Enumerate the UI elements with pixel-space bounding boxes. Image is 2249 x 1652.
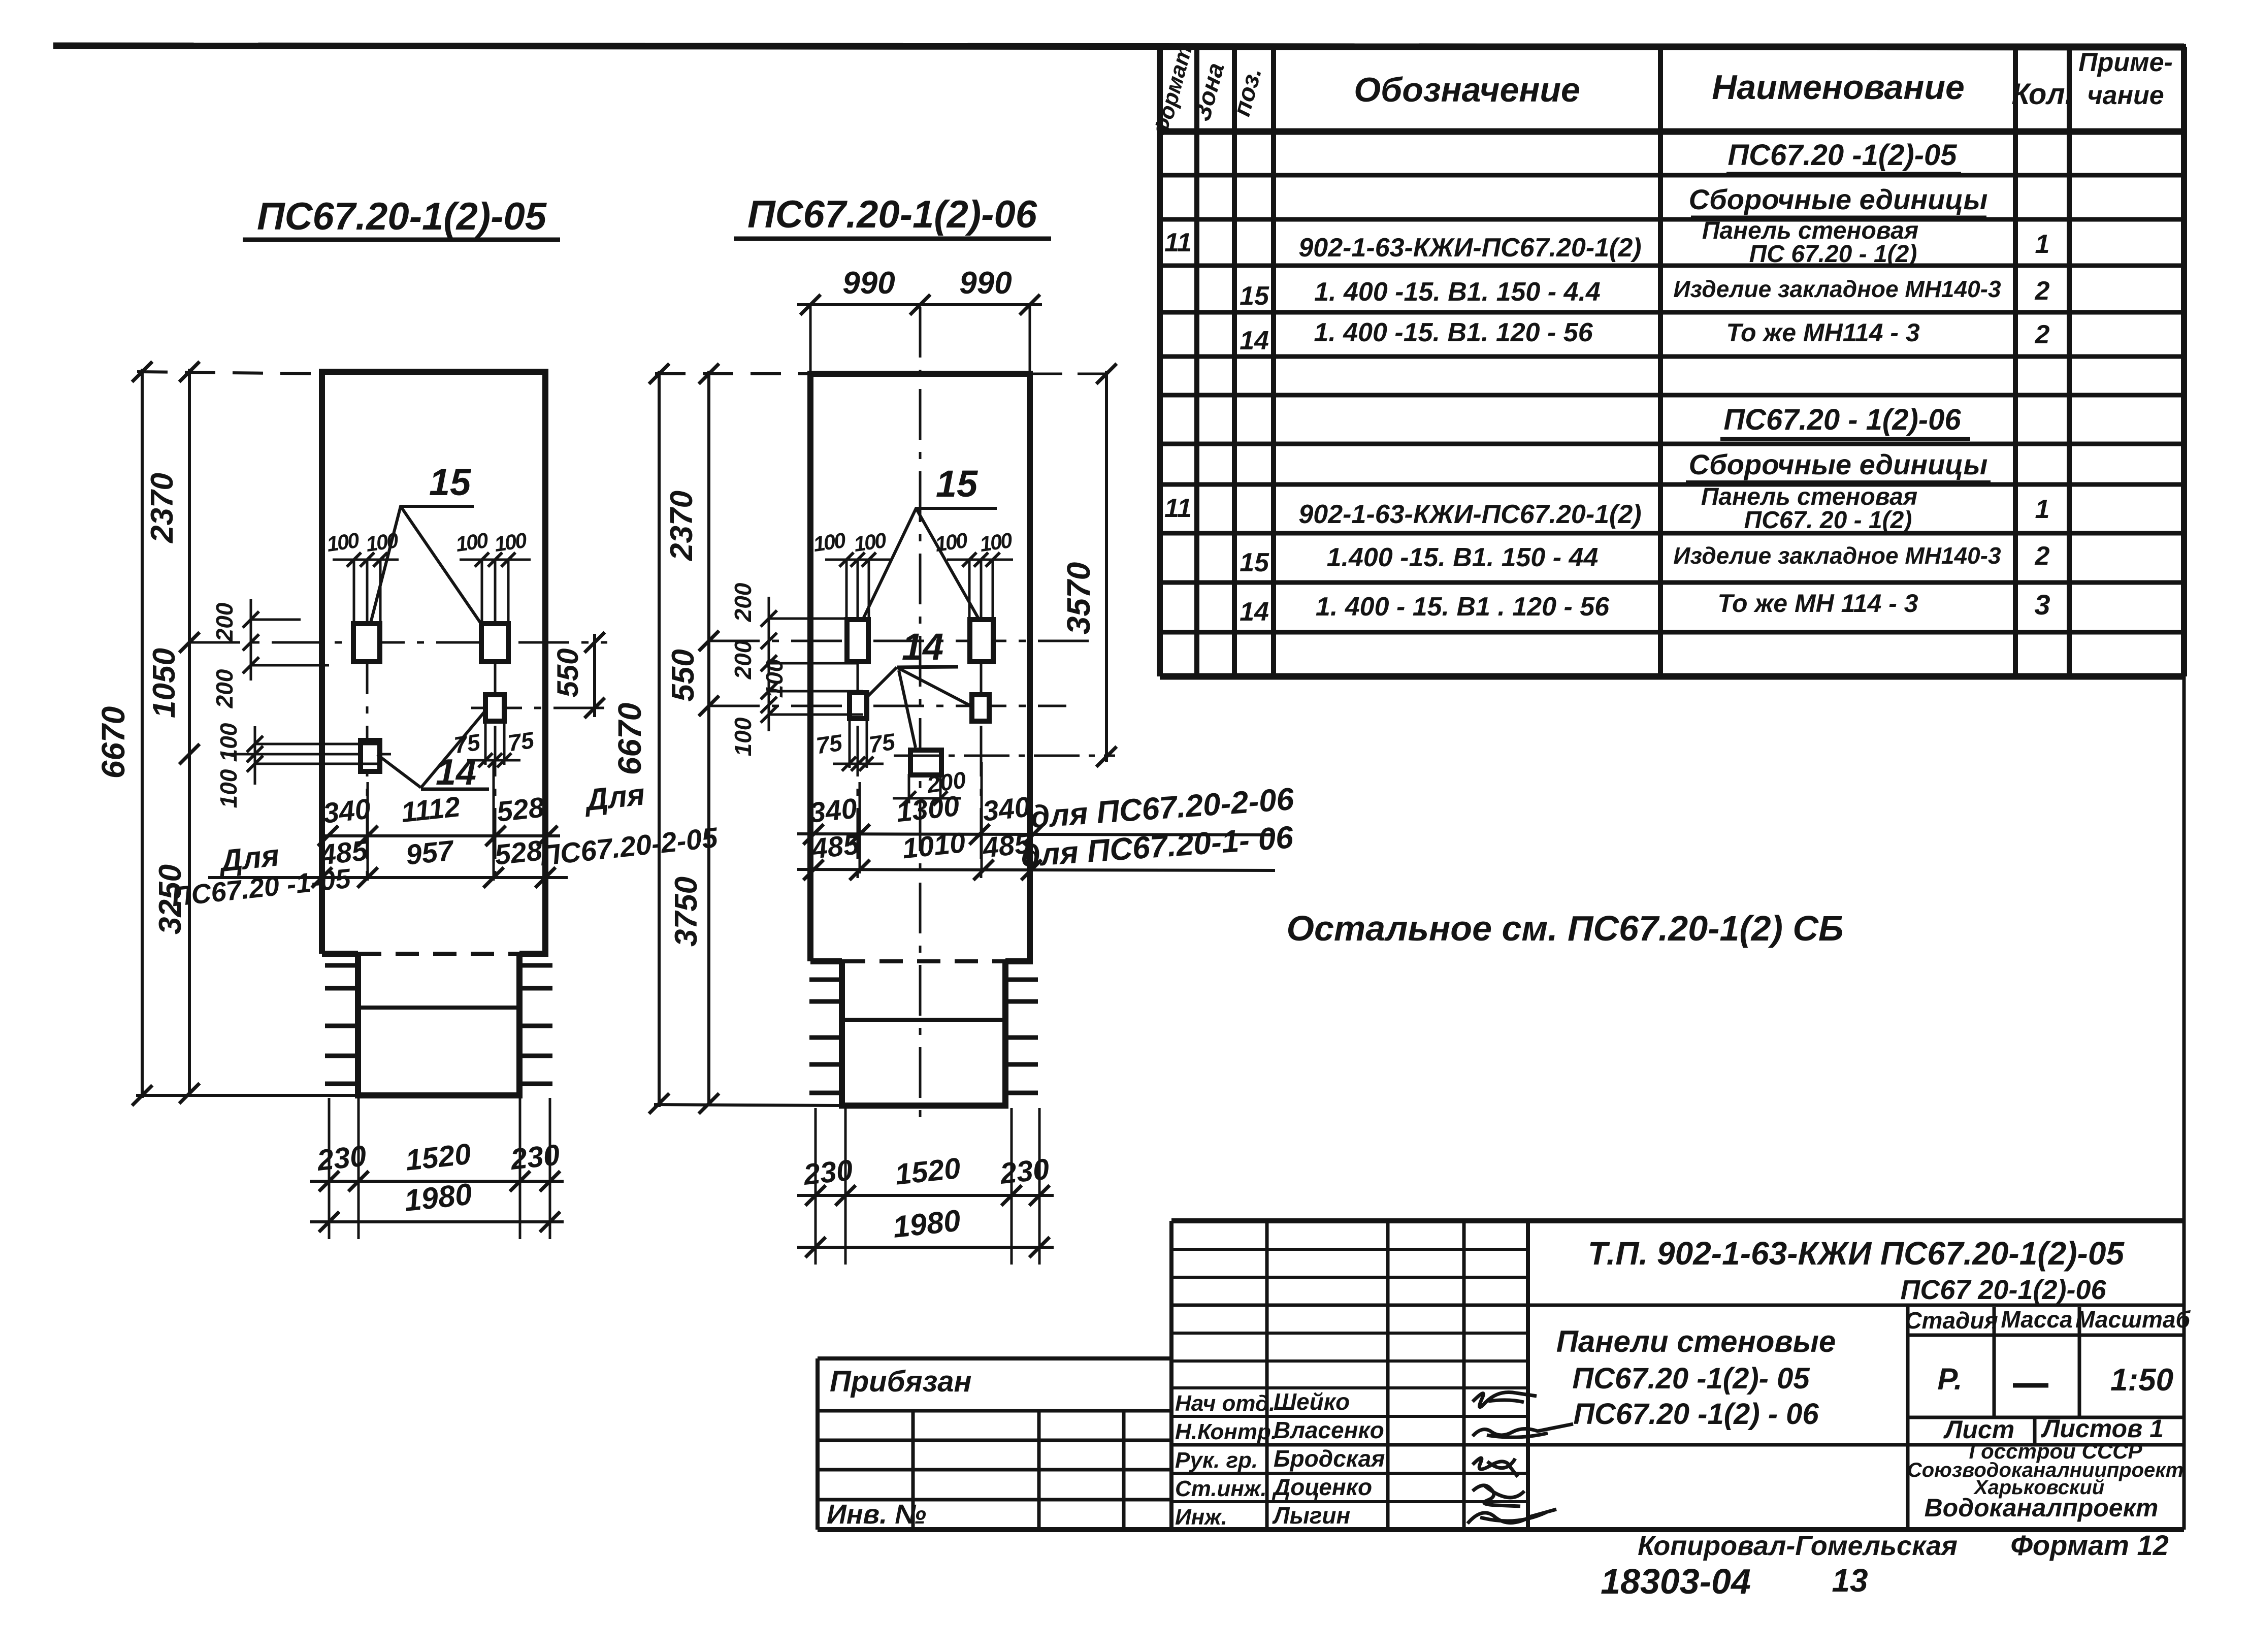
svg-text:200: 200 <box>211 602 238 642</box>
svg-text:13: 13 <box>1832 1562 1868 1599</box>
svg-text:Стадия: Стадия <box>1905 1307 1998 1334</box>
svg-text:230: 230 <box>508 1138 561 1176</box>
svg-text:Копировал-Гомельская: Копировал-Гомельская <box>1638 1531 1958 1561</box>
svg-text:1: 1 <box>2035 230 2050 259</box>
svg-text:ПС 67.20 - 1(2): ПС 67.20 - 1(2) <box>1749 241 1917 268</box>
panel 1 hatch marks right <box>520 963 552 968</box>
d2 embed plate 14 lower-left <box>850 693 867 719</box>
svg-text:550: 550 <box>666 649 701 701</box>
panel 1 joint line <box>358 1006 519 1010</box>
svg-text:75: 75 <box>814 729 844 759</box>
svg-text:990: 990 <box>842 266 895 301</box>
svg-text:528: 528 <box>493 834 544 871</box>
svg-text:957: 957 <box>404 834 456 871</box>
d2 embed plate 15 top-right <box>970 620 993 662</box>
d1 embed column centerline left <box>366 561 369 880</box>
d1 dim row 230/1520/230 <box>310 1180 564 1183</box>
svg-text:ПС67.20-1(2)-05: ПС67.20-1(2)-05 <box>257 195 547 238</box>
d1 bottom extension line <box>136 1094 358 1097</box>
d2 center vertical axis <box>919 307 922 1117</box>
svg-text:15: 15 <box>936 463 979 505</box>
svg-text:100: 100 <box>978 528 1014 556</box>
svg-text:1980: 1980 <box>891 1203 962 1244</box>
svg-text:100: 100 <box>454 528 490 556</box>
d1 horizontal centerline upper embeds <box>189 641 607 644</box>
svg-text:Рук. гр.: Рук. гр. <box>1175 1448 1258 1473</box>
svg-text:ПС67. 20 - 1(2): ПС67. 20 - 1(2) <box>1744 507 1912 534</box>
svg-text:Остальное см. ПС67.20-1(2) С: Остальное см. ПС67.20-1(2) СБ <box>1287 909 1844 948</box>
d2 embed column centerline right <box>980 561 983 884</box>
svg-text:200: 200 <box>730 582 756 622</box>
svg-text:902-1-63-КЖИ-ПС67.20-1(2): 902-1-63-КЖИ-ПС67.20-1(2) <box>1298 233 1641 263</box>
svg-text:550: 550 <box>551 649 584 698</box>
svg-text:1980: 1980 <box>403 1177 474 1218</box>
svg-text:230: 230 <box>315 1139 368 1177</box>
panel 2 hidden bottom edge (dashed) <box>842 959 1005 963</box>
svg-text:Обозначение: Обозначение <box>1354 71 1580 109</box>
d2 top extension line <box>655 372 810 375</box>
svg-text:1520: 1520 <box>404 1138 472 1177</box>
svg-text:Для: Для <box>582 777 646 817</box>
svg-text:100: 100 <box>215 769 242 808</box>
d1 dim row 340/1112/528 <box>322 834 560 837</box>
d1 bottom extension verticals <box>328 1098 331 1239</box>
svg-text:То же МН 114 - 3: То же МН 114 - 3 <box>1717 589 1918 618</box>
svg-text:Инж.: Инж. <box>1175 1505 1227 1530</box>
svg-text:1520: 1520 <box>893 1152 962 1191</box>
svg-text:14: 14 <box>1240 597 1269 627</box>
svg-text:Изделие закладное МН140-3: Изделие закладное МН140-3 <box>1673 276 2001 302</box>
title block outer and grid <box>1171 1218 2184 1223</box>
d1 top extension line <box>137 372 322 374</box>
svg-text:1. 400 -15. В1. 150 - 4.4: 1. 400 -15. В1. 150 - 4.4 <box>1314 277 1601 307</box>
d2 dim row 230/1520/230 <box>797 1194 1054 1197</box>
svg-text:200: 200 <box>211 669 238 708</box>
svg-text:ПС67.20 -1(2) - 06: ПС67.20 -1(2) - 06 <box>1573 1398 1819 1431</box>
svg-text:6670: 6670 <box>95 706 132 779</box>
svg-text:1112: 1112 <box>400 790 462 828</box>
svg-text:Нач отд.: Нач отд. <box>1175 1391 1275 1416</box>
svg-text:75: 75 <box>867 728 897 758</box>
svg-text:Масштаб: Масштаб <box>2075 1306 2191 1333</box>
d2 embed column extensions to dim rows <box>859 782 861 873</box>
svg-text:75: 75 <box>506 727 536 757</box>
svg-text:3: 3 <box>2034 589 2050 621</box>
svg-text:Власенко: Власенко <box>1274 1417 1384 1443</box>
d1 embed plate 15 top-right <box>481 624 508 662</box>
svg-text:2: 2 <box>2035 276 2050 306</box>
svg-text:100: 100 <box>933 528 969 556</box>
svg-text:11: 11 <box>1164 494 1192 523</box>
d1 left dim chain 2370/1050/3250 <box>188 369 191 1097</box>
d1 embed column extensions to dim rows <box>367 782 369 881</box>
svg-text:15: 15 <box>429 461 472 503</box>
page top frame line <box>53 46 2186 47</box>
svg-text:485: 485 <box>809 828 861 865</box>
d2 bottom extension line <box>654 1105 843 1106</box>
svg-text:Н.Контр.: Н.Контр. <box>1175 1419 1277 1444</box>
panel 1 hidden bottom edge (dashed) <box>358 952 519 956</box>
signatures scribbles <box>1473 1392 1537 1407</box>
panel 2 hatch marks right <box>1006 978 1038 982</box>
svg-text:Сборочные единицы: Сборочные единицы <box>1689 183 1988 215</box>
d1 dim row 1980 <box>310 1220 564 1223</box>
svg-text:100: 100 <box>730 717 756 756</box>
svg-text:Доценко: Доценко <box>1272 1474 1372 1500</box>
d1 centerline lower-right embed <box>471 707 607 709</box>
svg-text:2370: 2370 <box>145 473 180 543</box>
svg-text:100: 100 <box>493 528 528 556</box>
d1 dim 550 right <box>593 634 596 717</box>
svg-text:2370: 2370 <box>664 491 699 561</box>
panel 1 outline <box>322 372 545 954</box>
svg-text:чание: чание <box>2087 81 2164 110</box>
svg-text:1050: 1050 <box>147 648 182 718</box>
svg-text:14: 14 <box>436 752 476 793</box>
svg-text:2: 2 <box>2035 541 2050 571</box>
svg-text:15: 15 <box>1240 281 1269 311</box>
svg-text:1010: 1010 <box>901 826 967 865</box>
svg-text:11: 11 <box>1164 228 1192 257</box>
svg-text:Масса: Масса <box>2001 1306 2072 1333</box>
svg-text:ПС67 20-1(2)-06: ПС67 20-1(2)-06 <box>1900 1275 2106 1305</box>
svg-text:230: 230 <box>998 1152 1051 1190</box>
page right frame line <box>2182 46 2186 1530</box>
svg-text:1300: 1300 <box>895 790 961 828</box>
panel 2 outline <box>810 374 1030 961</box>
d1 embed column centerline right <box>494 561 497 880</box>
panel 1 hatch marks left <box>325 963 357 968</box>
panel 1 tongue outline <box>358 954 519 1095</box>
svg-text:100: 100 <box>215 723 242 762</box>
d2 bottom extension verticals <box>814 1108 817 1265</box>
svg-text:3750: 3750 <box>669 877 704 947</box>
svg-text:990: 990 <box>959 266 1012 301</box>
d2 horizontal centerline lower embeds <box>709 705 1066 707</box>
svg-text:6670: 6670 <box>611 703 648 775</box>
d2 dim row 1980 <box>797 1246 1054 1249</box>
d2 embed plate 15 top-left <box>847 620 868 662</box>
spec table grid <box>1157 47 1163 676</box>
svg-text:14: 14 <box>1240 326 1269 355</box>
d2 embed plate bottom-center <box>910 750 941 775</box>
svg-text:Панели стеновые: Панели стеновые <box>1556 1324 1836 1358</box>
d2 embed column centerline left <box>857 561 859 884</box>
d1 centerline lower-left embed <box>223 753 391 756</box>
svg-text:2: 2 <box>2035 320 2050 349</box>
svg-text:100: 100 <box>852 528 888 556</box>
svg-text:230: 230 <box>801 1153 854 1191</box>
svg-text:1: 1 <box>2035 495 2050 524</box>
svg-text:Приме-: Приме- <box>2078 48 2173 77</box>
svg-text:ПС67.20 -1(2)-05: ПС67.20 -1(2)-05 <box>1728 139 1957 172</box>
svg-text:Р.: Р. <box>1937 1362 1962 1396</box>
d2 left dim chain 2370/550/3750 <box>707 371 710 1106</box>
d2 dim row 340/1300/340 <box>797 834 1275 835</box>
svg-text:ПС67.20-1(2)-06: ПС67.20-1(2)-06 <box>747 193 1037 236</box>
svg-text:Формат 12: Формат 12 <box>2010 1529 2169 1561</box>
svg-text:1.400 -15. В1. 150 - 44: 1.400 -15. В1. 150 - 44 <box>1327 543 1599 572</box>
d1 embed plate 14 lower-left <box>361 740 380 771</box>
svg-text:100: 100 <box>811 528 847 556</box>
svg-text:Сборочные единицы: Сборочные единицы <box>1689 448 1988 480</box>
d1 embed plate 14 lower-right <box>485 695 504 721</box>
svg-text:1. 400 -15. В1. 120 - 56: 1. 400 -15. В1. 120 - 56 <box>1314 318 1593 347</box>
panel 2 hatch marks left <box>809 978 841 982</box>
svg-text:340: 340 <box>981 790 1032 827</box>
svg-text:14: 14 <box>902 626 943 668</box>
svg-text:100: 100 <box>325 528 361 556</box>
svg-text:Инв. №: Инв. № <box>827 1499 926 1530</box>
svg-text:ПС67.20 - 1(2)-06: ПС67.20 - 1(2)-06 <box>1723 403 1961 436</box>
svg-text:1. 400 - 15. В1 . 120 - 56: 1. 400 - 15. В1 . 120 - 56 <box>1316 592 1610 622</box>
svg-text:Изделие закладное МН140-3: Изделие закладное МН140-3 <box>1673 542 2001 569</box>
d2 embed plate 14 lower-right <box>972 695 989 721</box>
d1 embed plate 15 top-left <box>353 624 380 662</box>
svg-text:902-1-63-КЖИ-ПС67.20-1(2): 902-1-63-КЖИ-ПС67.20-1(2) <box>1298 500 1641 529</box>
d2 dim 3570 right <box>1105 371 1108 762</box>
svg-text:200: 200 <box>730 640 756 679</box>
svg-text:340: 340 <box>808 792 859 828</box>
d1 dim row 485/957/528 <box>208 876 568 879</box>
svg-text:Бродская: Бродская <box>1274 1445 1385 1472</box>
svg-text:Листов 1: Листов 1 <box>2041 1414 2164 1443</box>
svg-text:Шейко: Шейко <box>1274 1388 1350 1415</box>
d2 left dim chain 6670 <box>658 371 661 1107</box>
svg-text:100: 100 <box>364 528 400 556</box>
svg-text:Водоканалпроект: Водоканалпроект <box>1925 1494 2159 1522</box>
svg-text:ПС67.20 -1(2)- 05: ПС67.20 -1(2)- 05 <box>1572 1362 1810 1395</box>
svg-text:Лыгин: Лыгин <box>1272 1502 1350 1529</box>
svg-text:Прибязан: Прибязан <box>830 1365 972 1398</box>
svg-text:3570: 3570 <box>1060 562 1097 634</box>
svg-text:Ст.инж.: Ст.инж. <box>1175 1476 1267 1501</box>
panel 2 joint line <box>842 1018 1005 1022</box>
svg-text:1:50: 1:50 <box>2110 1363 2173 1398</box>
svg-text:528: 528 <box>495 791 546 828</box>
svg-text:Наименование: Наименование <box>1712 68 1965 107</box>
svg-text:То же МН114 - 3: То же МН114 - 3 <box>1726 318 1919 347</box>
d2 dim 990/990 top <box>797 303 1042 306</box>
d2 dim row 485/1010/485 <box>797 869 1275 870</box>
panel 2 tongue outline <box>842 961 1005 1106</box>
d2 horizontal centerline upper embeds <box>709 640 1092 642</box>
svg-text:340: 340 <box>321 792 372 829</box>
svg-text:Т.П. 902-1-63-КЖИ ПС67.20-1(2): Т.П. 902-1-63-КЖИ ПС67.20-1(2)-05 <box>1588 1235 2125 1272</box>
svg-text:15: 15 <box>1240 548 1269 577</box>
d1 left dim chain 6670 <box>141 369 144 1098</box>
svg-text:18303-04: 18303-04 <box>1601 1562 1751 1601</box>
svg-text:Кол.: Кол. <box>2011 78 2073 111</box>
